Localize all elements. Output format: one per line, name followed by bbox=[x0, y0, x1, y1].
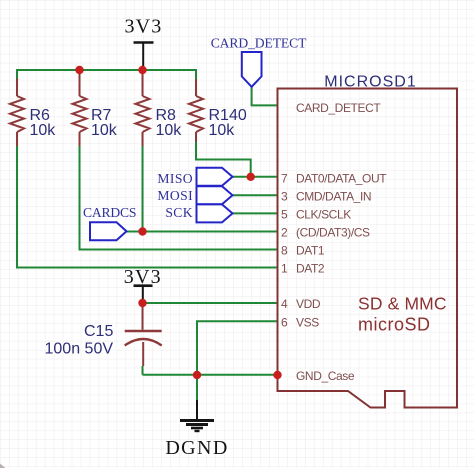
resistor R7 bbox=[73, 73, 118, 146]
net label MOSI bbox=[157, 186, 232, 204]
capacitor C15 bbox=[45, 304, 162, 366]
net label CARD_DETECT bbox=[211, 36, 307, 87]
wire: 3V3 top rail bbox=[17, 70, 196, 80]
junction: ground rail / DGND bbox=[193, 371, 201, 379]
svg-text:DAT1: DAT1 bbox=[296, 244, 325, 258]
svg-text:10k: 10k bbox=[156, 122, 183, 139]
svg-text:CMD/DATA_IN: CMD/DATA_IN bbox=[296, 190, 371, 204]
wire: pin 6 VSS to ground rail bbox=[197, 321, 278, 375]
wire: SCK tag to pin 5 bbox=[233, 212, 278, 214]
svg-text:7: 7 bbox=[281, 172, 288, 186]
wire: 3V3 to pin 4 VDD bbox=[143, 302, 278, 304]
comment: SD & MMC microSD bbox=[358, 294, 447, 335]
svg-text:3V3: 3V3 bbox=[124, 16, 162, 38]
wire: ground rail to GND_Case bbox=[143, 366, 278, 375]
svg-text:DAT2: DAT2 bbox=[296, 262, 325, 276]
svg-text:MOSI: MOSI bbox=[157, 188, 193, 203]
corner artifact bottom-left bbox=[0, 464, 6, 468]
pin 4 VDD bbox=[281, 297, 321, 311]
svg-text:2: 2 bbox=[281, 226, 288, 240]
svg-text:DAT0/DATA_OUT: DAT0/DATA_OUT bbox=[296, 172, 387, 186]
svg-text:GND_Case: GND_Case bbox=[296, 369, 355, 383]
svg-text:(CD/DAT3)/CS: (CD/DAT3)/CS bbox=[296, 226, 370, 240]
wire: R8 bottom to CS node bbox=[142, 145, 144, 232]
resistor R140 bbox=[189, 79, 247, 142]
resistor R6 bbox=[10, 79, 56, 147]
wire: MISO tag to pin 7 bbox=[233, 176, 278, 178]
wire: R140 bottom to pin 7 node bbox=[196, 142, 251, 177]
pin 2 (CD/DAT3)/CS bbox=[281, 226, 370, 240]
pin 7 DAT0/DATA_OUT bbox=[281, 172, 387, 186]
svg-text:1: 1 bbox=[281, 262, 288, 276]
svg-text:10k: 10k bbox=[209, 122, 236, 139]
svg-text:5: 5 bbox=[281, 208, 288, 222]
resistor R8 bbox=[136, 73, 183, 146]
svg-text:VDD: VDD bbox=[296, 297, 321, 311]
svg-text:MISO: MISO bbox=[157, 171, 193, 186]
pin 3 CMD/DATA_IN bbox=[281, 190, 371, 204]
svg-text:DGND: DGND bbox=[165, 437, 228, 459]
svg-text:CARD_DETECT: CARD_DETECT bbox=[296, 101, 381, 115]
wire: CARD_DETECT tag to pin bbox=[252, 86, 278, 105]
svg-text:C15: C15 bbox=[84, 323, 113, 340]
junction: CS node / R8 bbox=[138, 227, 146, 235]
junction: top rail / 3V3 / R8 bbox=[138, 66, 146, 74]
svg-text:8: 8 bbox=[281, 244, 288, 258]
net label CARDCS bbox=[83, 205, 136, 240]
svg-text:10k: 10k bbox=[91, 122, 118, 139]
svg-text:VSS: VSS bbox=[296, 315, 319, 329]
pin 6 VSS bbox=[281, 315, 319, 329]
power port 3V3 (top) bbox=[124, 16, 162, 70]
svg-text:SD & MMC: SD & MMC bbox=[358, 294, 447, 314]
svg-text:3V3: 3V3 bbox=[124, 266, 162, 288]
ground DGND bbox=[165, 400, 228, 459]
svg-text:SCK: SCK bbox=[165, 205, 193, 220]
component U: MICROSD1 body bbox=[278, 89, 458, 408]
wire: CARDCS tag to pin 2 bbox=[127, 231, 278, 233]
pin 1 DAT2 bbox=[281, 262, 325, 276]
junction: VDD node / C15 bbox=[138, 299, 146, 307]
power port 3V3 (lower) bbox=[124, 266, 162, 302]
wire: R6 bottom to pin 1 DAT2 bbox=[17, 145, 278, 268]
junction: pin 7 node / R140 bbox=[247, 173, 255, 181]
pin 5 CLK/SCLK bbox=[281, 208, 351, 222]
junction: top rail / R7 bbox=[75, 66, 83, 74]
svg-text:CARD_DETECT: CARD_DETECT bbox=[211, 36, 307, 51]
wire: R7 bottom to pin 8 DAT1 bbox=[80, 145, 278, 250]
net label MISO bbox=[157, 168, 232, 186]
wire: DGND stub bbox=[196, 375, 198, 400]
svg-text:microSD: microSD bbox=[358, 315, 431, 335]
svg-text:MICROSD1: MICROSD1 bbox=[324, 74, 416, 91]
svg-text:3: 3 bbox=[281, 190, 288, 204]
svg-text:4: 4 bbox=[281, 297, 288, 311]
svg-text:CLK/SCLK: CLK/SCLK bbox=[296, 208, 351, 222]
svg-text:CARDCS: CARDCS bbox=[83, 205, 136, 220]
svg-text:100n 50V: 100n 50V bbox=[45, 341, 114, 358]
wire: MOSI tag to pin 3 bbox=[233, 194, 278, 196]
net label SCK bbox=[165, 204, 232, 222]
junction: GND_Case at body bbox=[273, 371, 281, 379]
svg-text:10k: 10k bbox=[30, 122, 57, 139]
svg-text:6: 6 bbox=[281, 315, 288, 329]
pin 8 DAT1 bbox=[281, 244, 325, 258]
